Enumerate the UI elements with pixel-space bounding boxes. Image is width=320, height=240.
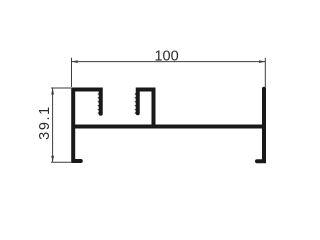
right wall + right foot	[257, 89, 264, 162]
serration teeth bar 1	[97, 93, 98, 114]
serration teeth bar 2	[134, 93, 135, 114]
dimension 39.1: dimension line	[52, 88, 54, 162]
dimension 100: extension line right	[264, 58, 266, 87]
middle horizontal bar	[73, 125, 264, 129]
svg-text:39.1: 39.1	[37, 105, 53, 140]
dimension 39.1: extension line top	[51, 87, 71, 89]
dimension 100: right arrowhead	[259, 60, 265, 63]
dimension 100: left arrowhead	[72, 60, 78, 63]
dimension 100: extension line left	[71, 58, 73, 87]
svg-text:100: 100	[154, 48, 178, 64]
dimension 39.1: bottom arrowhead	[51, 156, 54, 163]
hook 2: serrated bar 2 + top bar 2 + right drop bar	[138, 90, 154, 127]
dimension 39.1: top arrowhead	[51, 88, 54, 95]
profile left wall + top bar + serrated bar 1 + left foot	[73, 90, 101, 162]
dimension 100: dimension line	[72, 61, 266, 63]
dimension 39.1: extension line bottom	[51, 161, 71, 163]
